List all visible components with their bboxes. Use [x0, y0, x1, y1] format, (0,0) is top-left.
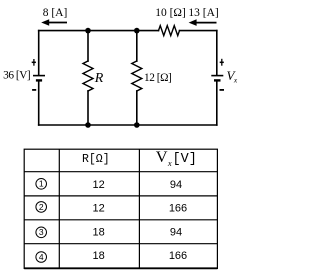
- svg-text:V: V: [156, 149, 169, 166]
- svg-text:3: 3: [39, 227, 44, 237]
- svg-text:18: 18: [92, 226, 104, 238]
- svg-text:36 [V]: 36 [V]: [3, 69, 30, 81]
- svg-text:1: 1: [39, 179, 44, 189]
- svg-text:12 [Ω]: 12 [Ω]: [144, 72, 171, 84]
- svg-text:x: x: [233, 75, 238, 84]
- svg-text:94: 94: [170, 226, 182, 238]
- svg-text:12: 12: [92, 203, 104, 215]
- svg-text:10 [Ω]: 10 [Ω]: [155, 7, 186, 19]
- svg-text:12: 12: [92, 179, 104, 191]
- svg-text:166: 166: [169, 250, 187, 262]
- svg-text:18: 18: [92, 250, 104, 262]
- svg-text:4: 4: [39, 252, 44, 262]
- svg-text:166: 166: [169, 203, 187, 215]
- svg-text:8 [A]: 8 [A]: [43, 7, 68, 19]
- svg-text:R: R: [94, 71, 104, 86]
- svg-text:13 [A]: 13 [A]: [188, 7, 218, 19]
- svg-text:R[Ω]: R[Ω]: [82, 153, 110, 166]
- svg-text:[V]: [V]: [173, 152, 197, 167]
- svg-text:2: 2: [39, 202, 44, 212]
- svg-text:x: x: [167, 158, 172, 168]
- svg-text:94: 94: [170, 179, 182, 191]
